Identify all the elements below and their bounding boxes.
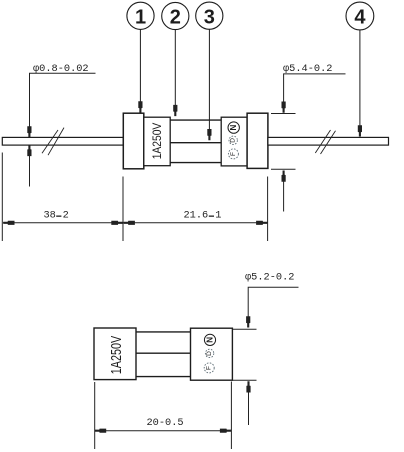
break mark left (42, 128, 64, 156)
svg-text:D: D (230, 138, 237, 143)
body 1A250V band (bottom view) (94, 328, 136, 380)
dimension 21.6+-1 (123, 177, 268, 242)
leader 1 (138, 29, 142, 113)
leader 4 (358, 30, 362, 137)
balloon 4 (346, 2, 374, 30)
svg-text:F: F (230, 152, 237, 156)
element wire (bottom view) (136, 352, 191, 354)
svg-text:N: N (206, 337, 215, 343)
svg-text:2: 2 (170, 7, 181, 29)
balloon 3 (196, 2, 223, 29)
leader 2 (173, 29, 177, 116)
svg-text:20-0.5: 20-0.5 (147, 417, 184, 429)
svg-text:2: 2 (63, 209, 69, 221)
svg-text:21.6: 21.6 (184, 209, 209, 221)
body tube (bottom view) (136, 332, 191, 377)
svg-text:φ5.2-0.2: φ5.2-0.2 (245, 271, 294, 283)
dimension cap diameter 5.4-0.2 (271, 63, 346, 212)
dimension body diameter 5.2-0.2 (232, 271, 298, 425)
marking band 1A250V (144, 117, 170, 166)
svg-text:1A250V: 1A250V (107, 335, 124, 374)
svg-text:4: 4 (354, 7, 366, 29)
end cap right (247, 113, 268, 168)
svg-text:φ5.4-0.2: φ5.4-0.2 (283, 63, 332, 75)
fuse element wire (170, 142, 221, 144)
svg-text:3: 3 (204, 6, 215, 28)
dimension lead diameter 0.8-0.02 (27, 63, 95, 187)
svg-text:1: 1 (215, 209, 221, 221)
end cap left (123, 113, 144, 169)
lead wire left (2, 137, 123, 145)
svg-text:N: N (229, 124, 238, 130)
lead wire right (268, 137, 389, 145)
approval marks band (221, 117, 247, 166)
svg-text:38: 38 (44, 209, 56, 221)
dimension 38+-2 (2, 153, 123, 242)
balloon 1 (127, 2, 154, 29)
glass tube (170, 120, 221, 163)
approval marks band (bottom view) (191, 328, 233, 380)
break mark right (315, 130, 335, 154)
leader 3 (207, 29, 211, 140)
balloon 2 (162, 2, 189, 29)
svg-text:D: D (206, 351, 213, 356)
svg-text:F: F (206, 366, 213, 370)
dimension 20-0.5 (95, 382, 232, 450)
svg-text:1A250V: 1A250V (151, 122, 164, 159)
svg-text:1: 1 (135, 7, 146, 29)
